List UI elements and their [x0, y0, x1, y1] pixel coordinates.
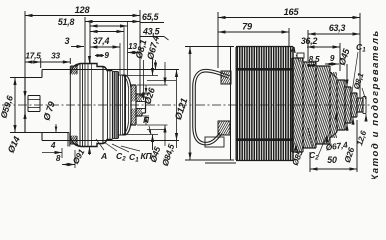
step section — [103, 67, 110, 144]
dim 79 — [218, 22, 289, 47]
dim dia26 right — [342, 117, 356, 164]
dim 43,5 — [90, 27, 169, 75]
handle clamp plate — [205, 137, 236, 163]
dim 17,5 — [25, 52, 41, 69]
dim 13 — [128, 42, 141, 54]
svg-text:37,4: 37,4 — [93, 36, 110, 46]
extension line y80.5 — [147, 80, 176, 82]
centerline of right view — [196, 104, 372, 106]
svg-text:65,5: 65,5 — [142, 12, 159, 22]
handle bottom lug — [210, 121, 238, 135]
dim 12,6 — [335, 114, 369, 147]
label A right — [289, 45, 300, 62]
output stem — [131, 94, 148, 116]
cylinder dia59,6 section — [10, 78, 70, 147]
svg-text:3: 3 — [65, 36, 70, 46]
dim dia79 label — [41, 99, 57, 121]
cone section 3 — [294, 66, 352, 144]
extension line dia84,5 bottom — [42, 140, 179, 142]
extension line dia84,5 top — [42, 69, 179, 71]
output disc — [119, 85, 147, 125]
dim 4 — [42, 141, 62, 158]
second step section — [119, 72, 126, 138]
dim dia8,1 — [134, 39, 149, 100]
dim dia91 — [70, 56, 91, 166]
dim dia45 left view — [137, 62, 168, 164]
end cap — [142, 97, 146, 113]
dim 9 — [95, 51, 109, 60]
svg-text:36,2: 36,2 — [301, 36, 318, 46]
label C1 left — [112, 144, 139, 164]
label P window — [143, 116, 151, 135]
dim dia8,1 right — [352, 71, 366, 99]
cone section 4 — [311, 72, 355, 138]
svg-text:17,5: 17,5 — [25, 52, 41, 61]
dim dia84,5 — [160, 70, 178, 168]
dim 165 — [218, 7, 360, 97]
cone section 7 — [344, 93, 364, 117]
center hole — [136, 102, 146, 109]
svg-text:Катод и подогреватель: Катод и подогреватель — [370, 29, 381, 179]
dim 51,8 — [58, 17, 128, 75]
svg-text:8: 8 — [56, 154, 61, 163]
svg-text:8,5: 8,5 — [309, 55, 320, 64]
svg-text:50: 50 — [327, 155, 337, 165]
cone section 2 — [278, 62, 341, 148]
svg-text:A: A — [289, 45, 296, 55]
flange lower hatched block — [64, 136, 84, 147]
cone section 1 — [265, 53, 330, 152]
dim 3 — [65, 36, 84, 48]
cathode stem left — [28, 96, 40, 112]
flange upper hatched block — [64, 64, 84, 75]
dim 33 — [41, 52, 71, 65]
svg-text:9: 9 — [330, 54, 335, 63]
dim 128 — [25, 5, 140, 118]
svg-text:165: 165 — [284, 7, 300, 17]
dim 50 — [310, 120, 357, 172]
label C2 right — [308, 128, 319, 162]
label KP left — [121, 146, 153, 161]
dim dia59,6 — [0, 78, 17, 133]
dim 65,5 — [85, 12, 164, 63]
centerline of left view — [2, 104, 192, 106]
svg-text:63,3: 63,3 — [329, 23, 346, 33]
label A left — [96, 139, 107, 161]
radiator fins block — [236, 47, 294, 161]
dim dia121 — [172, 47, 234, 161]
cathode stem right — [353, 97, 367, 114]
svg-text:79: 79 — [242, 22, 253, 32]
svg-text:КП: КП — [140, 151, 152, 161]
dim 8,5 — [307, 55, 320, 67]
dome outline — [70, 64, 112, 147]
dim 36,2 — [301, 36, 340, 71]
dim arrow at x155 — [154, 60, 157, 70]
svg-text:51,8: 51,8 — [58, 17, 75, 27]
body taper — [123, 75, 132, 135]
label C1 right — [352, 42, 366, 92]
dim dia67,4 — [125, 35, 161, 150]
extension line y129.5 — [147, 129, 166, 131]
ribbed section — [113, 72, 119, 139]
label cathode and heater — [370, 29, 381, 180]
svg-text:9: 9 — [104, 51, 109, 60]
cylinder dia79 faces — [42, 66, 70, 144]
svg-text:4: 4 — [50, 141, 56, 150]
cone section 5 — [323, 80, 359, 130]
dim 37,4 — [90, 36, 120, 74]
mounting plate — [231, 47, 237, 160]
dim dia26 left view — [142, 85, 157, 125]
dim 8 — [56, 150, 75, 168]
dim dia45 right — [337, 47, 352, 131]
svg-text:33: 33 — [51, 52, 60, 61]
dim dia85 — [290, 143, 305, 167]
cone section 6 — [335, 87, 362, 123]
handle top lug — [214, 71, 239, 84]
svg-text:128: 128 — [75, 5, 91, 15]
dim dia14 — [6, 86, 27, 154]
dim 9 right — [325, 54, 339, 66]
dim dia67,4 right — [318, 135, 349, 156]
svg-text:A: A — [100, 151, 107, 161]
label C2 left — [104, 142, 126, 163]
section arrow bottom — [55, 124, 58, 133]
handle bail — [194, 71, 229, 144]
dim 63,3 — [308, 23, 360, 61]
